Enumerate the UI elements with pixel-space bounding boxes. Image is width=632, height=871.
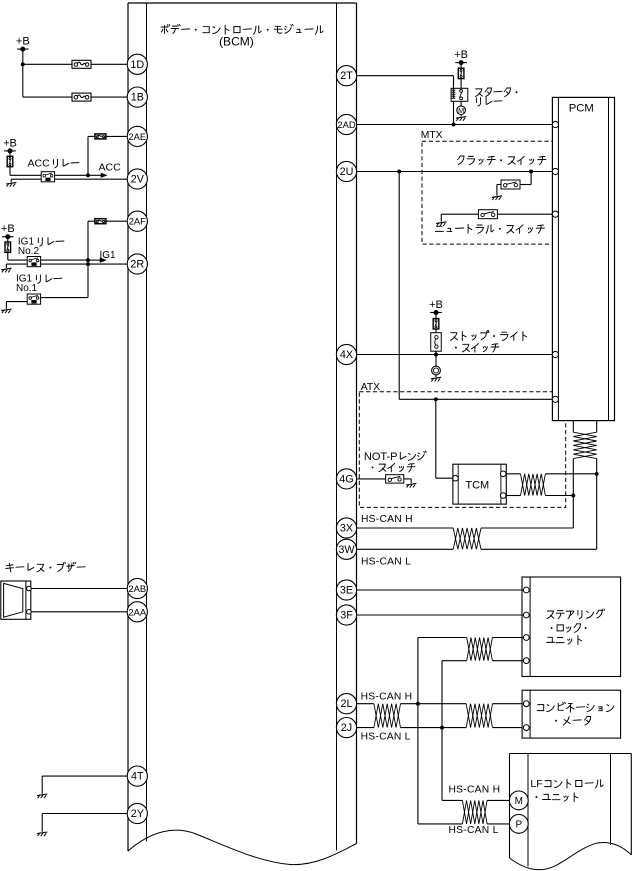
connector pin 2AD (BCM right) bbox=[336, 114, 356, 134]
wire 2AF fuse branch bbox=[88, 221, 128, 260]
wire stop light switch to 4X line bbox=[434, 351, 438, 366]
BCM module box (ボデー・コントロール・モジュール) bbox=[128, 3, 357, 865]
HS-CAN L label (3W) bbox=[361, 556, 411, 567]
svg-text:+B: +B bbox=[1, 223, 15, 235]
svg-text:HS-CAN H: HS-CAN H bbox=[361, 514, 413, 525]
connector pin 2AF (BCM left) bbox=[127, 211, 147, 231]
wire +B to IG1 relay No.2 switch bbox=[8, 252, 28, 260]
fuse (1D line) bbox=[72, 60, 91, 68]
fuse (+B stop light) bbox=[433, 313, 439, 330]
svg-text:+B: +B bbox=[429, 299, 443, 311]
ground (2Y) bbox=[37, 832, 47, 836]
stop lamp bulb bbox=[432, 366, 441, 375]
fuse (+B IG1) bbox=[5, 237, 11, 253]
svg-text:NOT-P: NOT-P bbox=[364, 451, 398, 463]
svg-text:M: M bbox=[515, 796, 523, 807]
svg-text:2AB: 2AB bbox=[128, 583, 146, 594]
svg-text:2AA: 2AA bbox=[128, 606, 146, 617]
svg-text:P: P bbox=[515, 820, 522, 831]
twisted pair coil (LF unit) bbox=[462, 800, 487, 824]
svg-text:2Y: 2Y bbox=[131, 808, 144, 820]
steering lock unit label bbox=[547, 609, 605, 645]
twisted pair coil (steering lock) bbox=[467, 638, 493, 661]
steering lock pin 1 bbox=[523, 587, 529, 593]
HS-CAN L label (LF) bbox=[449, 825, 499, 836]
IG1 relay No.2 label bbox=[18, 236, 64, 256]
wire 3F to steering lock bbox=[357, 614, 524, 616]
svg-text:HS-CAN H: HS-CAN H bbox=[449, 785, 501, 796]
svg-text:+B: +B bbox=[3, 137, 17, 149]
PCM pin (2AD) bbox=[552, 121, 558, 127]
wire IG1 No.2 coil to 2R with junction bbox=[41, 262, 128, 266]
neutral switch bbox=[478, 210, 497, 219]
TCM pin (lower right) bbox=[500, 493, 506, 499]
combination meter box bbox=[522, 690, 621, 738]
LF pin P bbox=[509, 815, 528, 834]
wire 3X HS-CAN H bbox=[357, 527, 574, 529]
connector pin 3F (BCM right) bbox=[336, 605, 356, 625]
wire vertical CAN branch A bbox=[416, 638, 420, 824]
wire steering pin3 via coil to vertical bbox=[418, 637, 524, 639]
svg-text:+B: +B bbox=[454, 49, 468, 61]
relay IG1 No.2 bbox=[27, 257, 40, 267]
wire 4T to ground bbox=[42, 776, 128, 794]
wire vertical CAN branch B bbox=[440, 661, 444, 801]
wire 2J HS-CAN L bbox=[357, 727, 524, 729]
wire 2Y to ground bbox=[42, 814, 128, 832]
wire clutch switch to 2U line bbox=[520, 172, 531, 185]
+B power symbol (starter relay) bbox=[454, 49, 468, 65]
svg-text:TCM: TCM bbox=[465, 480, 489, 492]
connector pin 2L (BCM right) bbox=[336, 694, 356, 714]
wire TCM lower pin to CAN-L vertical bbox=[506, 494, 575, 498]
ground (starter motor) bbox=[456, 115, 466, 121]
keyless buzzer label bbox=[6, 562, 85, 572]
HS-CAN H label (LF) bbox=[449, 785, 501, 796]
keyless buzzer speaker bbox=[1, 581, 31, 619]
HS-CAN H label (3X) bbox=[361, 514, 413, 525]
fuse (2AE line) bbox=[95, 134, 106, 139]
wire neutral switch to ground bbox=[441, 214, 478, 221]
svg-text:LF: LF bbox=[530, 778, 542, 790]
svg-text:1B: 1B bbox=[131, 92, 144, 104]
svg-text:(BCM): (BCM) bbox=[219, 35, 254, 49]
ground (ACC relay coil) bbox=[6, 179, 41, 186]
TCM pin (upper right) bbox=[500, 471, 506, 477]
steering lock unit box bbox=[522, 577, 621, 677]
wire CAN-H to LF (M) bbox=[442, 799, 509, 801]
wire 3E to steering lock bbox=[357, 589, 524, 591]
wire 2U branch down to PCM (ATX line) bbox=[399, 172, 552, 402]
wire PCM CAN-L down bbox=[596, 421, 598, 550]
svg-text:1D: 1D bbox=[130, 59, 144, 71]
wire starter relay coil to 2AD line bbox=[453, 101, 455, 124]
wire +B to ACC relay switch bbox=[10, 167, 41, 176]
HS-CAN L label (2J) bbox=[361, 732, 411, 743]
fuse (2AF line) bbox=[95, 219, 106, 224]
svg-text:HS-CAN L: HS-CAN L bbox=[449, 825, 499, 836]
MTX label bbox=[421, 130, 443, 141]
ATX dashed box bbox=[359, 392, 565, 508]
svg-text:+B: +B bbox=[16, 36, 30, 48]
combination meter pin 1 bbox=[523, 701, 529, 707]
connector pin 1B (BCM left) bbox=[127, 87, 147, 107]
svg-text:4G: 4G bbox=[339, 473, 353, 485]
steering lock pin 4 bbox=[523, 658, 529, 664]
wire neutral switch to PCM bbox=[497, 213, 552, 215]
connector pin 2J (BCM right) bbox=[336, 718, 356, 738]
svg-text:4X: 4X bbox=[340, 349, 353, 361]
svg-text:4T: 4T bbox=[131, 771, 144, 783]
connector pin 1D (BCM left) bbox=[127, 54, 147, 74]
neutral switch label bbox=[435, 224, 544, 233]
NOT-P range switch bbox=[386, 475, 404, 483]
svg-text:HS-CAN L: HS-CAN L bbox=[361, 732, 411, 743]
wire 4X to PCM bbox=[357, 354, 553, 356]
PCM box bbox=[552, 97, 614, 420]
IG1 relay No.1 label bbox=[16, 273, 62, 293]
wire 2U to PCM with junctions bbox=[357, 170, 553, 174]
connector pin 3W (BCM right) bbox=[336, 539, 356, 559]
+B power symbol (ACC relay) bbox=[3, 137, 17, 153]
IG1 output arrow bbox=[41, 258, 107, 263]
svg-text:No.2: No.2 bbox=[18, 246, 40, 257]
PCM pin (neutral) bbox=[552, 211, 558, 217]
wire 3W HS-CAN L bbox=[357, 548, 597, 550]
wire steering pin4 via coil to vertical bbox=[442, 660, 523, 662]
PCM pin (stop light) bbox=[552, 351, 558, 357]
wire TCM upper pin to CAN-H vertical bbox=[506, 472, 599, 476]
connector pin 2Y (BCM left) bbox=[127, 803, 147, 823]
svg-text:2L: 2L bbox=[340, 698, 352, 710]
PCM pin (clutch) bbox=[552, 168, 558, 174]
svg-text:3F: 3F bbox=[340, 610, 353, 622]
connector pin 3X (BCM right) bbox=[336, 518, 356, 538]
svg-text:3E: 3E bbox=[340, 585, 353, 597]
wire PCM CAN-H down bbox=[572, 421, 574, 528]
svg-text:2AE: 2AE bbox=[128, 131, 146, 142]
connector pin 4T (BCM left) bbox=[127, 766, 147, 786]
wire 2AE fuse branch bbox=[88, 136, 128, 175]
twisted pair coil (TCM) bbox=[521, 474, 546, 496]
ground (stop lamp) bbox=[431, 375, 441, 382]
TCM box bbox=[453, 464, 506, 504]
LF control unit box bbox=[510, 754, 632, 870]
svg-text:2AD: 2AD bbox=[337, 119, 355, 130]
relay IG1 No.1 bbox=[27, 294, 40, 304]
svg-text:M: M bbox=[458, 106, 464, 115]
fuse (1B line) bbox=[72, 93, 91, 101]
connector pin 2U (BCM right) bbox=[336, 161, 356, 181]
IG1 net label bbox=[100, 250, 117, 261]
wire +B to 1D/1B with junction bbox=[21, 49, 128, 97]
wire 2L HS-CAN H bbox=[357, 703, 524, 705]
svg-text:2AF: 2AF bbox=[129, 216, 146, 227]
stop light switch label bbox=[451, 331, 527, 353]
MTX dashed box bbox=[422, 141, 567, 244]
combination meter pin 2 bbox=[523, 725, 529, 731]
fuse (+B ACC) bbox=[7, 151, 13, 167]
svg-text:ACC: ACC bbox=[99, 162, 122, 174]
connector pin 2AA (BCM left) bbox=[127, 602, 147, 622]
wire fuse to starter relay switch bbox=[460, 79, 462, 89]
svg-text:3X: 3X bbox=[340, 523, 353, 535]
twisted pair coil (2L/2J) bbox=[374, 704, 401, 728]
wire IG1 No.1 switch output bbox=[41, 264, 88, 298]
ground (neutral switch) bbox=[436, 222, 446, 226]
svg-text:ATX: ATX bbox=[361, 382, 380, 393]
connector pin 2V (BCM left) bbox=[127, 169, 147, 189]
LF control unit label bbox=[530, 778, 603, 802]
twisted pair coil (combination meter) bbox=[466, 704, 492, 728]
+B power symbol (stop light) bbox=[429, 299, 443, 315]
svg-text:3W: 3W bbox=[338, 544, 355, 556]
ground (NOT-P switch) bbox=[404, 479, 417, 488]
svg-text:MTX: MTX bbox=[421, 130, 443, 141]
starter relay label bbox=[476, 88, 518, 106]
+B power symbol (IG1 relay No.2) bbox=[1, 223, 15, 239]
wire buzzer to 2AA bbox=[31, 611, 128, 613]
ACC net label bbox=[99, 162, 122, 174]
steering lock pin 3 bbox=[523, 635, 529, 641]
motor M (starter) bbox=[457, 101, 466, 115]
ATX label bbox=[361, 382, 380, 393]
twisted pair coil (PCM) bbox=[573, 432, 596, 458]
BCM title text bbox=[161, 24, 323, 48]
wire 4G to NOT-P switch bbox=[357, 478, 386, 480]
wire branch down to TCM bbox=[436, 399, 453, 478]
connector pin 2R (BCM left) bbox=[127, 254, 147, 274]
clutch switch label bbox=[458, 156, 546, 165]
ground (IG1 No.1) bbox=[1, 302, 27, 314]
wire buzzer to 2AB bbox=[31, 588, 128, 590]
fuse (+B starter) bbox=[458, 63, 464, 79]
connector pin 2AE (BCM left) bbox=[127, 126, 147, 146]
HS-CAN H label (2L) bbox=[361, 691, 413, 702]
svg-text:IG1: IG1 bbox=[100, 250, 117, 261]
wire 2AD to PCM bbox=[357, 123, 553, 127]
twisted pair coil (3X/3W) bbox=[453, 528, 481, 549]
svg-text:2U: 2U bbox=[340, 166, 354, 178]
clutch switch bbox=[501, 180, 520, 189]
connector pin 2AB (BCM left) bbox=[127, 578, 147, 598]
ground (IG1 No.2 relay coil) bbox=[1, 264, 27, 272]
svg-text:2V: 2V bbox=[131, 174, 145, 186]
steering lock pin 2 bbox=[523, 612, 529, 618]
wire 2T to starter relay coil bbox=[357, 76, 454, 89]
svg-text:No.1: No.1 bbox=[16, 283, 38, 294]
svg-text:HS-CAN H: HS-CAN H bbox=[361, 691, 413, 702]
svg-text:ACC: ACC bbox=[28, 157, 51, 169]
connector pin 3E (BCM right) bbox=[336, 580, 356, 600]
svg-text:2R: 2R bbox=[130, 259, 144, 271]
stop light switch bbox=[431, 329, 442, 351]
PCM pin (ATX) bbox=[552, 396, 558, 402]
relay starter (coil + switch) bbox=[451, 88, 468, 101]
ACC output arrow bbox=[55, 173, 108, 178]
connector pin 4G (BCM right) bbox=[336, 469, 356, 489]
TCM pin (left) bbox=[453, 475, 459, 481]
combination meter label bbox=[537, 702, 614, 725]
ACC relay label bbox=[28, 157, 79, 169]
ground (clutch switch) bbox=[492, 185, 502, 201]
+B power symbol (top left) bbox=[16, 36, 30, 52]
svg-text:2T: 2T bbox=[340, 70, 353, 82]
connector pin 2T (BCM right) bbox=[336, 66, 356, 86]
svg-text:HS-CAN L: HS-CAN L bbox=[361, 556, 411, 567]
svg-text:PCM: PCM bbox=[569, 103, 594, 115]
wire CAN-L to LF (P) bbox=[418, 823, 510, 825]
svg-text:2J: 2J bbox=[341, 722, 352, 734]
wire ACC relay coil to 2V bbox=[55, 178, 128, 180]
NOT-P range switch label bbox=[364, 451, 426, 472]
relay ACC bbox=[41, 172, 54, 182]
connector pin 4X (BCM right) bbox=[336, 344, 356, 364]
LF pin M bbox=[509, 791, 528, 810]
ground (4T) bbox=[37, 794, 47, 798]
